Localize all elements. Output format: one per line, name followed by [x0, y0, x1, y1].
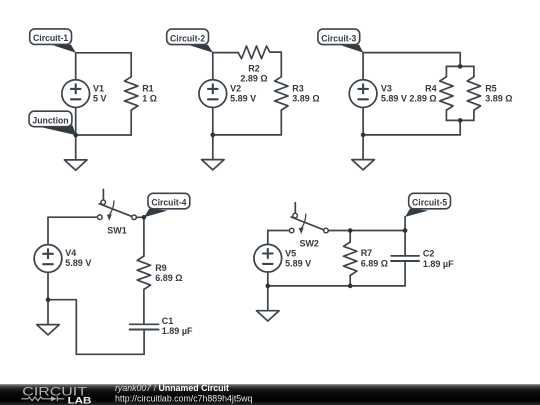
svg-text:3.89 Ω: 3.89 Ω — [292, 94, 319, 104]
wire SW1 to node — [136, 216, 144, 218]
svg-text:6.89 Ω: 6.89 Ω — [155, 273, 182, 283]
switch SW2 — [289, 203, 328, 235]
svg-text:R7: R7 — [361, 248, 373, 258]
node circuit 3 bottom left — [361, 133, 366, 138]
flag Circuit-4 — [144, 193, 190, 217]
svg-text:V2: V2 — [230, 84, 241, 94]
wire top rail circuit 3 — [363, 53, 460, 67]
wire V4 top lead — [47, 217, 49, 244]
node circuit 5 R7 top — [348, 228, 353, 233]
wire top rail circuit 5 left — [268, 230, 290, 232]
node circuit 5 corner — [403, 228, 408, 233]
svg-text:R2: R2 — [248, 63, 260, 73]
wire parallel tee top — [446, 65, 474, 67]
svg-text:V3: V3 — [381, 84, 392, 94]
svg-text:1.89 µF: 1.89 µF — [162, 326, 193, 336]
label V2 — [230, 84, 256, 104]
wire R9 top lead — [143, 217, 145, 256]
svg-text:C1: C1 — [162, 316, 174, 326]
label SW1 — [107, 226, 127, 236]
svg-text:Circuit-5: Circuit-5 — [412, 198, 447, 208]
svg-text:SW1: SW1 — [107, 226, 127, 236]
node Circuit-2 top wire — [213, 52, 238, 54]
svg-text:1 Ω: 1 Ω — [142, 94, 157, 104]
ground circuit 2 — [202, 135, 225, 170]
node circuit 2 bottom — [211, 133, 216, 138]
voltage source V5 — [254, 244, 282, 272]
label R1 — [142, 84, 157, 104]
wire top rail circuit 1 — [76, 52, 132, 54]
label R4 — [409, 84, 436, 104]
label C1 — [162, 316, 193, 336]
label R7 — [361, 248, 388, 268]
wire bottom rail circuit 1 — [76, 134, 132, 136]
wire V5 top lead — [267, 231, 269, 245]
flag Junction — [29, 111, 76, 135]
label V3 — [381, 84, 407, 104]
svg-text:5.89 V: 5.89 V — [381, 94, 407, 104]
svg-text:5.89 V: 5.89 V — [230, 94, 256, 104]
ground circuit 4 — [37, 300, 60, 335]
svg-text:Circuit-3: Circuit-3 — [321, 33, 356, 43]
svg-text:R1: R1 — [142, 84, 154, 94]
flag Circuit-2 — [167, 29, 213, 52]
wire bottom rail circuit 3 — [363, 134, 460, 136]
wire V3 bottom lead — [362, 108, 364, 135]
voltage source V2 — [199, 80, 227, 108]
resistor R1 — [124, 53, 137, 135]
ground circuit 3 — [352, 135, 375, 170]
wire V3 top lead — [362, 53, 364, 80]
wire V4 bottom lead — [47, 272, 49, 299]
node circuit 3 tee top — [458, 64, 463, 69]
svg-text:2.89 Ω: 2.89 Ω — [240, 74, 267, 84]
svg-text:Junction: Junction — [32, 115, 69, 125]
label R3 — [292, 84, 319, 104]
wire V5 bottom lead — [267, 272, 269, 286]
wire V2 bottom lead — [212, 108, 214, 135]
wire top rail circuit 4 — [48, 216, 98, 218]
capacitor C2 — [391, 231, 419, 286]
label V4 — [65, 248, 91, 268]
wire bottom rail circuit 5 — [268, 285, 405, 287]
node circuit 5 source bottom — [266, 284, 271, 289]
voltage source V1 — [62, 80, 90, 108]
svg-text:Circuit-2: Circuit-2 — [170, 33, 205, 43]
svg-text:Circuit-4: Circuit-4 — [151, 198, 187, 208]
flag Circuit-3 — [318, 29, 363, 52]
label R2 — [240, 63, 267, 83]
svg-text:Circuit-1: Circuit-1 — [33, 33, 68, 43]
svg-text:LAB: LAB — [68, 395, 92, 405]
svg-text:5.89 V: 5.89 V — [285, 259, 311, 269]
footer bar — [0, 384, 540, 405]
label SW2 — [299, 238, 319, 248]
node junction circuit 1 bottom — [73, 133, 78, 138]
svg-text:3.89 Ω: 3.89 Ω — [485, 94, 512, 104]
node circuit 4 switch out — [142, 215, 147, 220]
wire right drop circuit 3 — [459, 120, 461, 134]
wire R7 top lead — [349, 231, 351, 243]
switch SW1 — [98, 189, 137, 221]
svg-text:V1: V1 — [93, 84, 104, 94]
svg-text:5.89 V: 5.89 V — [65, 258, 91, 268]
ground circuit 1 — [64, 135, 87, 170]
node circuit 4 source bottom — [46, 297, 51, 302]
wire V2 top lead — [212, 53, 214, 80]
resistor R5 — [467, 66, 480, 120]
wire bottom rail circuit 2 — [213, 134, 281, 136]
wire V1 bottom lead — [75, 108, 77, 136]
wire bottom loop circuit 4 — [48, 300, 144, 355]
label R5 — [485, 84, 512, 104]
svg-text:R3: R3 — [292, 84, 304, 94]
svg-text:6.89 Ω: 6.89 Ω — [361, 258, 388, 268]
svg-text:1.89 µF: 1.89 µF — [423, 259, 454, 269]
wire V1 top lead — [75, 53, 77, 80]
resistor R9 — [137, 256, 150, 324]
capacitor C1 — [130, 324, 159, 354]
svg-text:R4: R4 — [425, 84, 437, 94]
svg-text:V5: V5 — [285, 249, 296, 259]
label V1 — [93, 84, 107, 104]
wire right rail circuit 2 — [280, 53, 282, 77]
svg-text:C2: C2 — [423, 248, 435, 258]
resistor R2 — [238, 46, 281, 59]
svg-text:V4: V4 — [65, 248, 76, 258]
label C2 — [423, 248, 454, 269]
svg-text:5 V: 5 V — [93, 94, 107, 104]
flag Circuit-5 — [405, 193, 450, 217]
svg-text:R5: R5 — [485, 84, 497, 94]
voltage source V4 — [34, 245, 62, 273]
resistor R3 — [275, 77, 288, 135]
node circuit 3 tee bottom — [458, 118, 463, 123]
label R9 — [155, 263, 182, 283]
svg-text:ryank007 / Unnamed Circuit: ryank007 / Unnamed Circuit — [115, 383, 229, 393]
svg-text:R9: R9 — [155, 263, 167, 273]
svg-text:2.89 Ω: 2.89 Ω — [409, 94, 436, 104]
resistor R7 — [344, 242, 357, 286]
wire flag stub circuit 5 — [404, 217, 406, 231]
flag Circuit-1 — [30, 29, 76, 53]
voltage source V3 — [349, 80, 377, 108]
svg-text:SW2: SW2 — [299, 238, 319, 248]
svg-text:http://circuitlab.com/c7h889h4: http://circuitlab.com/c7h889h4jt5wq — [115, 393, 253, 403]
node circuit 5 R7 bottom — [348, 284, 353, 289]
footer logo schematic line — [21, 396, 64, 401]
wire parallel tee bottom — [446, 119, 474, 121]
wire top rail circuit 5 right — [328, 230, 405, 232]
resistor R4 — [440, 66, 453, 120]
label V5 — [285, 249, 311, 269]
ground circuit 5 — [257, 286, 280, 321]
